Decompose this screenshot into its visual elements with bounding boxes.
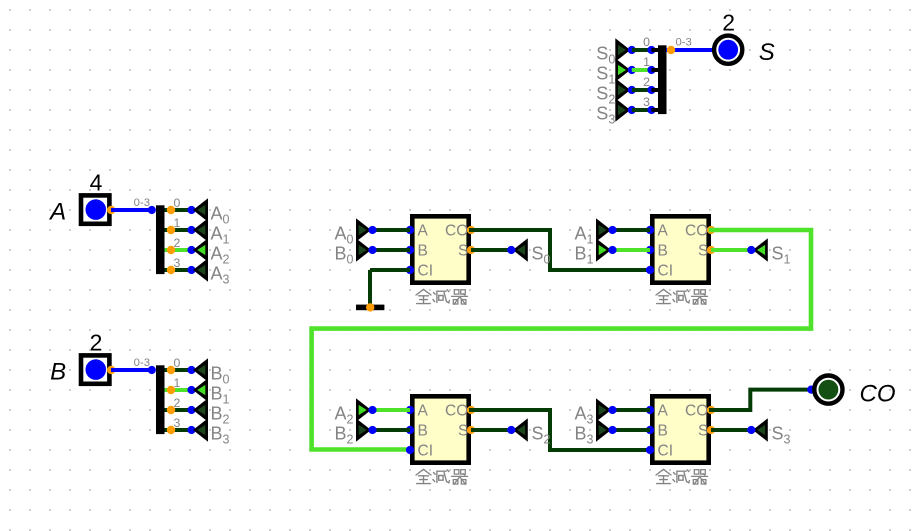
wire S3 to merge splitter (632, 108, 652, 112)
splitter bit 0 wire (A) (165, 208, 192, 212)
wire ground riser (368, 270, 372, 306)
tunnel A1 (193, 218, 208, 241)
wire U4 CO to output CO (711, 390, 812, 410)
svg-text:CI: CI (658, 263, 674, 280)
tunnel A0 (356, 218, 377, 241)
svg-text:0-3: 0-3 (676, 36, 692, 48)
tunnel A1 (596, 218, 617, 241)
wire box to S3 (711, 428, 751, 432)
label 全减器 (U1 (bit 0)) (416, 289, 468, 304)
svg-text:B: B (50, 359, 66, 386)
svg-text:CI: CI (658, 443, 674, 460)
tunnel B2 pin dot (187, 406, 195, 414)
tunnel S0 (507, 238, 528, 261)
wire B3 to box (612, 428, 650, 432)
wire B0 to box (372, 248, 410, 252)
svg-text:1: 1 (174, 216, 181, 230)
tunnel A2 (193, 238, 208, 261)
tunnel A0 (193, 198, 208, 221)
merge splitter bit 0 dot (647, 46, 655, 54)
tunnel A3 (596, 398, 617, 421)
svg-text:B: B (418, 243, 428, 260)
splitter bit 0 wire (B) (165, 368, 192, 372)
wire box to S1 (711, 248, 751, 252)
input A square (81, 195, 109, 223)
tunnel B2 (356, 418, 377, 441)
svg-text:4: 4 (90, 170, 103, 196)
merge splitter bit 2 stub (652, 88, 659, 92)
merge splitter output dot (667, 46, 675, 54)
svg-text:S: S (458, 243, 468, 260)
tunnel A2 (356, 398, 377, 421)
tunnel B0 pin dot (187, 366, 195, 374)
svg-text:CO: CO (685, 223, 708, 240)
input A pin dot (107, 206, 115, 214)
svg-text:CO: CO (445, 403, 468, 420)
splitter bit 0 pin dot (167, 366, 175, 374)
U3 (bit 2) input pin dots (406, 406, 414, 414)
svg-text:B: B (418, 423, 428, 440)
svg-text:S: S (458, 423, 468, 440)
svg-text:A: A (658, 223, 669, 240)
tunnel S3 (merge) (615, 98, 630, 121)
ground (356, 305, 384, 311)
full subtractor U1 (bit 0) (412, 216, 468, 282)
splitter bit 3 wire (B) (165, 428, 192, 432)
wire U2 CO borrow loop (312, 230, 811, 450)
wire B1 to box (612, 248, 650, 252)
tunnel B3 (596, 418, 617, 441)
wire U1 CI (370, 268, 410, 272)
wire box to S2 (471, 428, 511, 432)
wire A1 to box (612, 228, 650, 232)
input B square (81, 355, 109, 383)
merge splitter bit 1 dot (647, 66, 655, 74)
svg-text:2: 2 (722, 9, 735, 35)
svg-text:B: B (658, 243, 668, 260)
full subtractor U4 (bit 3) (652, 396, 708, 462)
svg-text:1: 1 (643, 55, 650, 69)
U3 (bit 2) output pin dots (467, 406, 475, 414)
merge splitter bit 0 stub (652, 48, 659, 52)
splitter bit 1 wire (A) (165, 228, 192, 232)
label 全减器 (U3 (bit 2)) (416, 469, 468, 484)
tunnel S1 (747, 238, 768, 261)
tunnel A3 pin dot (187, 266, 195, 274)
svg-text:3: 3 (174, 256, 181, 270)
merge splitter bit 2 dot (647, 86, 655, 94)
bus wire B (111, 368, 154, 372)
tunnel S2 (merge) (615, 78, 630, 101)
svg-text:0: 0 (174, 196, 181, 210)
U2 (bit 1) output pin dots (707, 226, 715, 234)
svg-text:A: A (48, 199, 66, 226)
full subtractor U2 (bit 1) (652, 216, 708, 282)
splitter bit 1 pin dot (167, 226, 175, 234)
wire S0 to merge splitter (632, 48, 652, 52)
svg-text:CO: CO (445, 223, 468, 240)
bus wire A (111, 208, 154, 212)
svg-text:A: A (418, 403, 429, 420)
U1 (bit 0) input pin dots (406, 226, 414, 234)
svg-text:B: B (658, 423, 668, 440)
svg-text:CI: CI (418, 443, 434, 460)
tunnel S1 pin dot (628, 66, 636, 74)
output CO (814, 376, 842, 404)
U4 (bit 3) output pin dots (707, 406, 715, 414)
splitter bit 3 wire (A) (165, 268, 192, 272)
tunnel A1 pin dot (187, 226, 195, 234)
tunnel S0 (merge) (615, 38, 630, 61)
tunnel S1 (merge) (615, 58, 630, 81)
tunnel A2 pin dot (187, 246, 195, 254)
output CO pin dot (807, 386, 815, 394)
tunnel A3 (193, 258, 208, 281)
output S (714, 36, 742, 64)
splitter bit 2 wire (A) (165, 248, 192, 252)
wire B2 to box (372, 428, 410, 432)
svg-text:A: A (418, 223, 429, 240)
tunnel B1 pin dot (187, 386, 195, 394)
merge splitter bar (658, 45, 667, 114)
splitter bit 3 pin dot (167, 266, 175, 274)
svg-text:1: 1 (174, 376, 181, 390)
wire S2 to merge splitter (632, 88, 652, 92)
svg-text:2: 2 (174, 236, 181, 250)
tunnel A0 pin dot (187, 206, 195, 214)
svg-text:CO: CO (860, 381, 896, 408)
wire box to S0 (471, 248, 511, 252)
svg-text:S: S (759, 39, 775, 66)
splitter bar (B) (156, 365, 165, 434)
svg-text:0: 0 (643, 35, 650, 49)
full subtractor U3 (bit 2) (412, 396, 468, 462)
svg-text:CI: CI (418, 263, 434, 280)
label 全减器 (U4 (bit 3)) (656, 469, 708, 484)
tunnel B3 pin dot (187, 426, 195, 434)
wire A2 to box (372, 408, 410, 412)
bus wire to output S (666, 48, 713, 52)
merge splitter bit 3 dot (647, 106, 655, 114)
U4 (bit 3) input pin dots (646, 406, 654, 414)
svg-text:0-3: 0-3 (134, 357, 150, 369)
merge splitter bit 1 stub (652, 68, 659, 72)
splitter bit 1 pin dot (167, 386, 175, 394)
tunnel S0 pin dot (628, 46, 636, 54)
tunnel B2 (193, 398, 208, 421)
wire S1 to merge splitter (632, 68, 652, 72)
tunnel S3 (747, 418, 768, 441)
tunnel S3 pin dot (628, 106, 636, 114)
wire U1 CO to U2 CI (471, 230, 650, 270)
splitter input dot (148, 366, 156, 374)
splitter bit 3 pin dot (167, 426, 175, 434)
splitter bar (A) (156, 205, 165, 274)
svg-text:A: A (658, 403, 669, 420)
tunnel B0 (193, 358, 208, 381)
svg-text:2: 2 (174, 396, 181, 410)
svg-text:3: 3 (643, 95, 650, 109)
svg-text:S: S (698, 423, 708, 440)
splitter bit 2 pin dot (167, 406, 175, 414)
merge splitter bit 3 stub (652, 108, 659, 112)
U1 (bit 0) output pin dots (467, 226, 475, 234)
tunnel B1 (596, 238, 617, 261)
svg-text:3: 3 (174, 416, 181, 430)
tunnel S2 (507, 418, 528, 441)
input B pin dot (107, 366, 115, 374)
splitter bit 2 pin dot (167, 246, 175, 254)
tunnel B0 (356, 238, 377, 261)
svg-text:CO: CO (685, 403, 708, 420)
svg-text:0: 0 (174, 356, 181, 370)
ground pin dot (366, 303, 374, 311)
splitter bit 2 wire (B) (165, 408, 192, 412)
wire A3 to box (612, 408, 650, 412)
tunnel B3 (193, 418, 208, 441)
splitter bit 1 wire (B) (165, 388, 192, 392)
svg-text:0-3: 0-3 (134, 197, 150, 209)
splitter input dot (148, 206, 156, 214)
svg-text:2: 2 (643, 75, 650, 89)
tunnel B1 (193, 378, 208, 401)
label 全减器 (U2 (bit 1)) (656, 289, 708, 304)
svg-text:S: S (698, 243, 708, 260)
svg-text:2: 2 (90, 330, 103, 356)
U2 (bit 1) input pin dots (646, 226, 654, 234)
splitter bit 0 pin dot (167, 206, 175, 214)
wire U3 CO to U4 CI (471, 410, 650, 450)
tunnel S2 pin dot (628, 86, 636, 94)
wire A0 to box (372, 228, 410, 232)
